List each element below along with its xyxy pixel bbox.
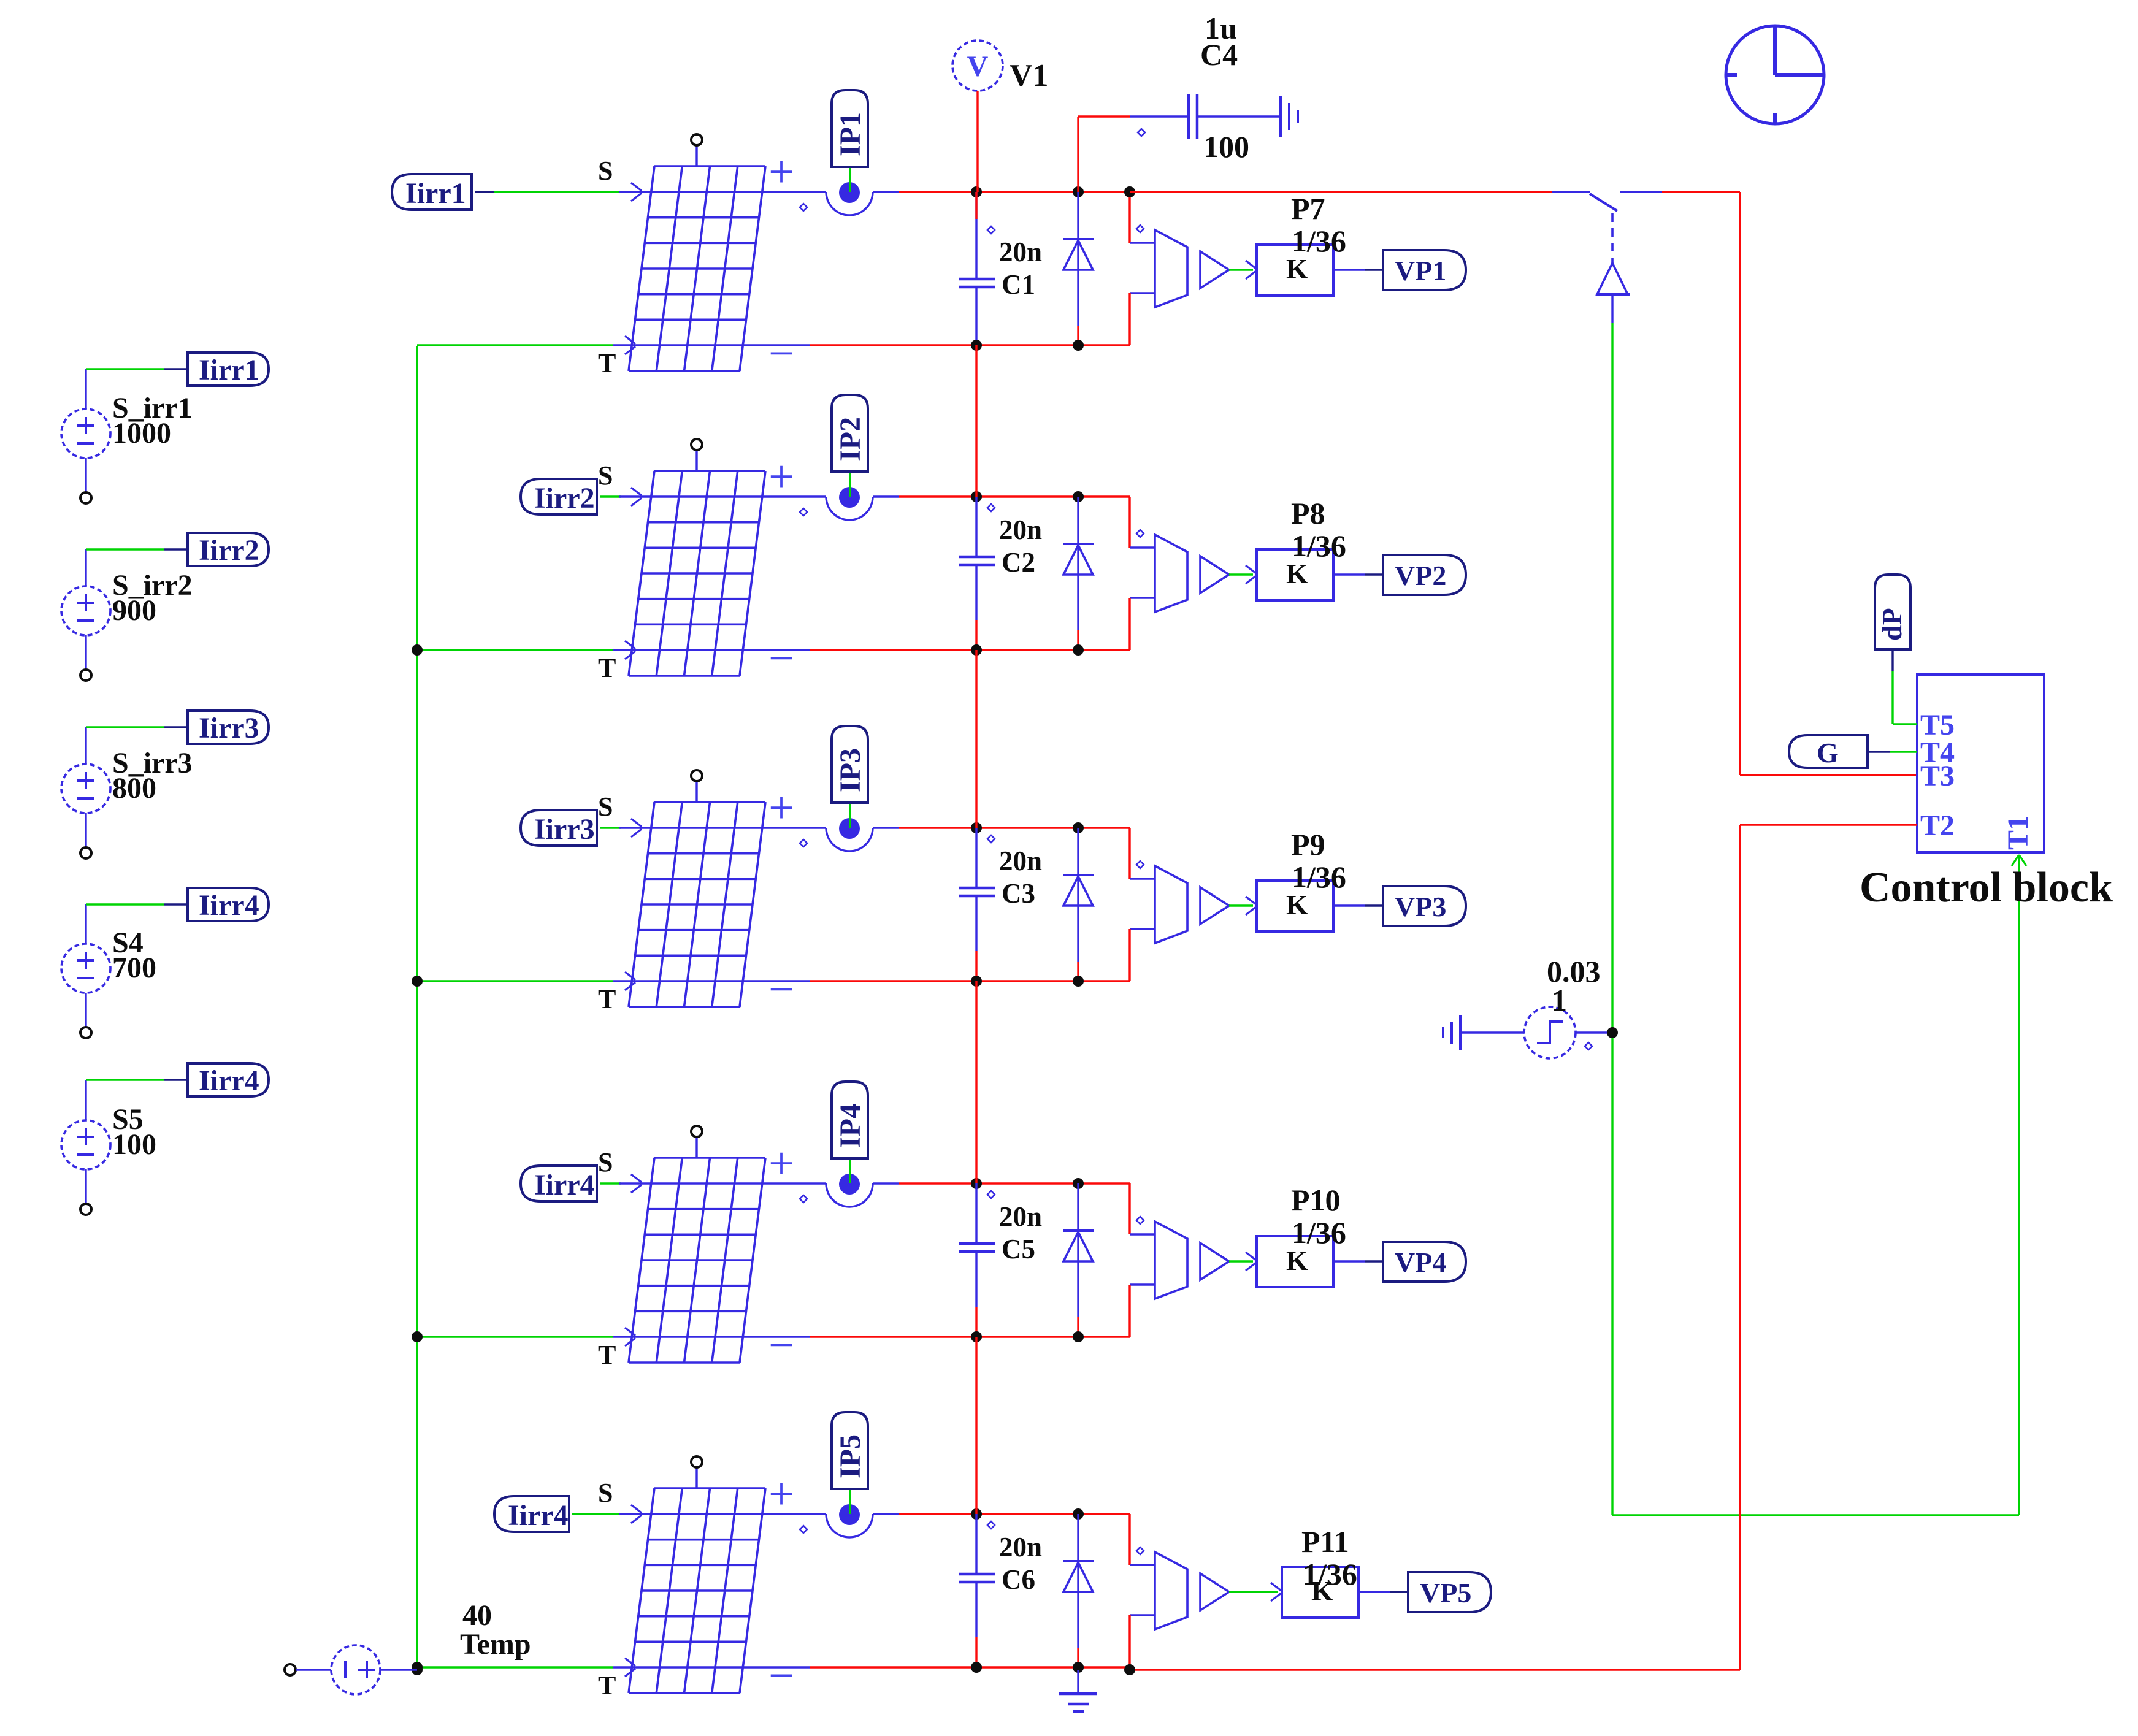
svg-text:P7: P7 [1291,191,1325,226]
svg-text:−: − [768,1651,794,1701]
svg-text:+: + [768,1139,794,1189]
svg-text:−: − [768,965,794,1015]
svg-text:20n: 20n [999,1201,1042,1232]
svg-text:Iirr1: Iirr1 [199,354,259,386]
svg-text:T: T [598,348,616,378]
svg-text:T: T [598,984,616,1014]
svg-text:P8: P8 [1291,496,1325,530]
svg-text:T: T [598,1670,616,1700]
svg-text:C6: C6 [1002,1564,1035,1595]
svg-text:V: V [967,50,989,83]
svg-text:V1: V1 [1010,58,1049,93]
svg-text:VP4: VP4 [1395,1247,1446,1278]
svg-text:C5: C5 [1002,1234,1035,1264]
svg-text:S: S [598,1147,613,1177]
svg-text:VP1: VP1 [1395,255,1446,286]
svg-text:−: − [768,329,794,379]
svg-text:Control block: Control block [1860,864,2113,911]
svg-text:40: 40 [462,1599,492,1632]
svg-text:S: S [598,792,613,822]
svg-text:dP: dP [1876,608,1907,641]
svg-text:T1: T1 [2002,816,2034,850]
svg-text:+: + [768,1469,794,1520]
svg-text:Iirr3: Iirr3 [199,712,259,744]
svg-text:C2: C2 [1002,547,1035,578]
svg-text:1/36: 1/36 [1303,1557,1357,1591]
svg-text:20n: 20n [999,846,1042,876]
svg-text:900: 900 [112,594,156,627]
svg-text:T2: T2 [1920,809,1955,842]
svg-text:1/36: 1/36 [1292,860,1346,894]
svg-text:VP2: VP2 [1395,560,1446,591]
svg-text:Iirr4: Iirr4 [199,1065,259,1097]
svg-text:Iirr4: Iirr4 [199,889,259,922]
svg-text:Iirr2: Iirr2 [199,534,259,567]
svg-text:Iirr1: Iirr1 [405,177,466,210]
svg-text:S: S [598,461,613,491]
svg-text:Iirr4: Iirr4 [534,1169,595,1201]
svg-text:1/36: 1/36 [1292,529,1346,563]
svg-text:−: − [768,633,794,684]
svg-text:1: 1 [1552,983,1567,1017]
svg-text:+: + [768,452,794,502]
svg-text:Iirr2: Iirr2 [534,482,595,514]
svg-text:T3: T3 [1920,760,1955,792]
svg-text:20n: 20n [999,237,1042,267]
svg-text:Iirr3: Iirr3 [534,813,595,846]
svg-text:IP1: IP1 [834,112,867,156]
svg-text:G: G [1817,737,1839,768]
svg-text:P10: P10 [1291,1183,1341,1217]
svg-text:700: 700 [112,952,156,984]
svg-text:IP4: IP4 [834,1104,867,1148]
svg-text:C3: C3 [1002,878,1035,909]
svg-text:800: 800 [112,772,156,805]
svg-text:+: + [768,783,794,833]
svg-text:VP5: VP5 [1420,1577,1471,1608]
svg-text:1/36: 1/36 [1292,1215,1346,1250]
svg-text:1/36: 1/36 [1292,224,1346,258]
svg-text:+: + [768,147,794,197]
svg-text:1000: 1000 [112,417,171,449]
svg-text:Temp: Temp [460,1628,531,1661]
svg-text:S: S [598,156,613,186]
svg-text:Iirr4: Iirr4 [508,1499,569,1532]
svg-text:P9: P9 [1291,827,1325,862]
svg-text:20n: 20n [999,514,1042,545]
svg-text:C4: C4 [1200,37,1238,72]
svg-text:100: 100 [1203,129,1249,164]
svg-text:20n: 20n [999,1532,1042,1562]
svg-text:100: 100 [112,1128,156,1161]
svg-text:C1: C1 [1002,269,1035,300]
svg-text:IP2: IP2 [834,417,867,461]
svg-text:IP3: IP3 [834,748,867,792]
svg-text:−: − [768,1320,794,1371]
svg-text:S: S [598,1478,613,1508]
svg-text:T: T [598,1340,616,1370]
svg-text:P11: P11 [1301,1524,1349,1559]
svg-text:T: T [598,653,616,683]
svg-text:IP5: IP5 [834,1434,867,1478]
svg-text:VP3: VP3 [1395,891,1446,922]
